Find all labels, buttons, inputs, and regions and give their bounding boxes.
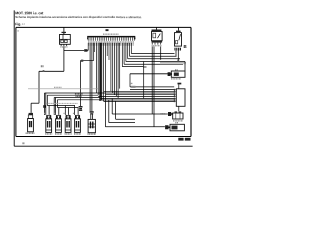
svg-text:Fig.: Fig. xyxy=(15,22,21,26)
svg-text:14: 14 xyxy=(22,22,26,26)
svg-text:B: B xyxy=(183,44,186,49)
svg-text:Schema impianto iniezione-acce: Schema impianto iniezione-accensione ele… xyxy=(15,15,142,19)
